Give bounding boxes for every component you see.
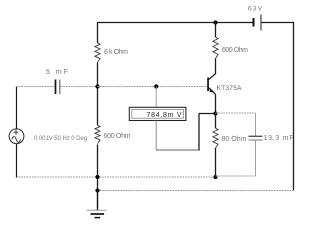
svg-text:KT375A: KT375A <box>217 85 243 92</box>
wire R4 bottom <box>215 148 217 178</box>
node emitter junction <box>213 111 217 115</box>
wire right rail <box>293 22 295 191</box>
wire collector column top <box>215 22 217 37</box>
sine source V1 <box>9 129 87 144</box>
capacitor C2 13.3 mF <box>249 135 294 142</box>
wire ground stem <box>97 191 99 211</box>
resistor R4 80 Ohm <box>213 128 247 148</box>
resistor R2 600 Ohm <box>95 125 131 143</box>
resistor R1 6 k Ohm <box>95 43 128 63</box>
node collector top junction <box>213 20 217 24</box>
wire bottom return rail (battery negative) <box>97 190 294 192</box>
wire input to capacitor C1 <box>16 86 55 88</box>
node ground rail junction <box>95 188 99 192</box>
wire meter bottom stub <box>155 120 157 150</box>
ground <box>87 210 107 217</box>
wire meter riser to emitter node <box>199 113 216 115</box>
voltmeter M1 <box>129 107 186 120</box>
capacitor C1 5 mF <box>46 69 68 94</box>
wire meter riser <box>198 114 200 151</box>
wire divider column middle <box>97 63 99 126</box>
svg-text:0.001V 50 Hz 0 Deg: 0.001V 50 Hz 0 Deg <box>34 135 87 142</box>
wire divider column top <box>97 22 99 43</box>
svg-text:600 Ohm: 600 Ohm <box>222 47 248 54</box>
svg-text:784.8m V: 784.8m V <box>147 112 182 119</box>
node divider bottom junction <box>95 175 99 179</box>
wire bypass branch right lower <box>255 141 257 177</box>
svg-text:5 mF: 5 mF <box>46 69 68 76</box>
wire bypass branch bottom <box>216 175 256 177</box>
svg-text:600 Ohm: 600 Ohm <box>104 133 131 140</box>
wire top rail left segment <box>97 22 253 24</box>
wire left column top segment <box>16 87 18 130</box>
wire bypass branch right upper <box>255 113 257 136</box>
battery V2 63V <box>248 6 263 31</box>
svg-text:6 k Ohm: 6 k Ohm <box>104 49 128 56</box>
resistor R3 600 Ohm <box>213 37 248 58</box>
node base junction <box>95 84 99 88</box>
wire emitter to node <box>215 95 217 114</box>
node emitter bottom junction <box>213 175 217 179</box>
wire collector column to transistor <box>215 59 217 74</box>
wire capacitor C1 to base node <box>61 86 98 88</box>
svg-text:80 Ohm: 80 Ohm <box>222 136 247 143</box>
wire emitter node to R4 <box>215 114 217 129</box>
wire meter top stub <box>155 87 157 108</box>
svg-text:63V: 63V <box>248 6 263 13</box>
wire meter bottom horizontal <box>156 149 199 151</box>
node meter tap junction <box>154 84 158 88</box>
svg-text:13.3 mF: 13.3 mF <box>264 135 294 142</box>
wire divider column bottom <box>97 144 99 191</box>
wire base wire <box>98 86 208 88</box>
wire bottom ground rail <box>16 176 216 178</box>
wire bypass branch top <box>216 112 256 114</box>
transistor Q1 KT375A <box>207 73 242 94</box>
wire left column bottom segment <box>16 144 18 178</box>
wire top rail right segment <box>262 22 295 24</box>
